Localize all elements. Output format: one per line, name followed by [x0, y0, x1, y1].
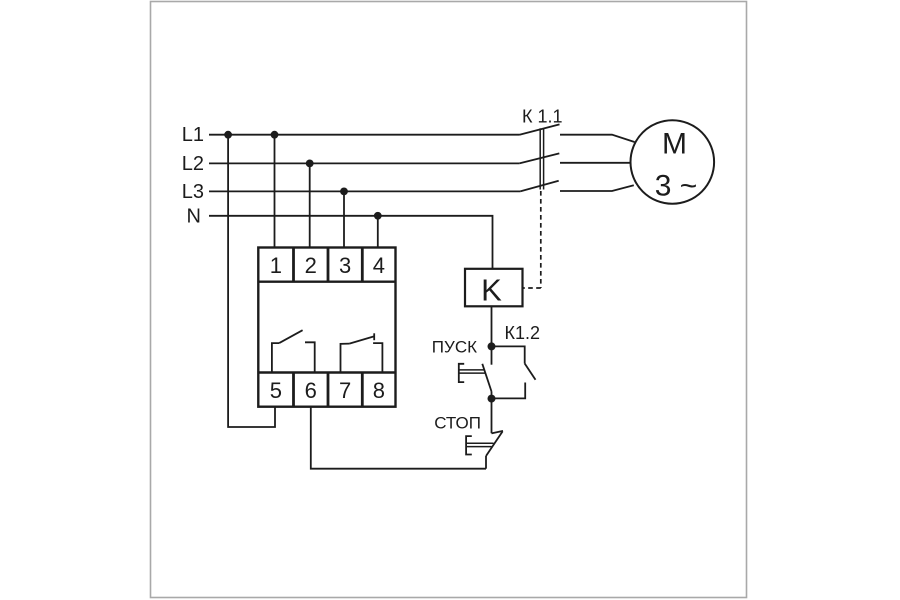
svg-text:K: K: [481, 272, 502, 307]
stop button blade: [486, 432, 503, 457]
relay contact B post 8: [373, 343, 382, 372]
terminal divider 7|8: [361, 373, 364, 407]
wire N to terminal 4: [377, 216, 379, 248]
wire L1 down left side to terminal 5: [228, 135, 275, 427]
svg-text:3: 3: [339, 253, 351, 278]
wire terminal 6 to stop button: [311, 407, 486, 469]
relay contact B blade tick: [373, 333, 375, 340]
wire L3 to terminal 3: [343, 191, 345, 247]
contactor K1.1 pole 2 blade: [519, 153, 559, 163]
contact K1.2 blade: [525, 364, 536, 380]
start button actuator rod lower: [459, 372, 486, 374]
coil K box: [465, 269, 523, 307]
wire L3: [209, 190, 520, 192]
contact K1.2 bottom branch wire: [492, 383, 526, 399]
terminal divider 3|4: [361, 248, 364, 282]
svg-text:5: 5: [270, 378, 282, 403]
contactor K1.1 pole 3 blade: [520, 181, 559, 192]
relay contact A blade: [279, 330, 302, 343]
stop button actuator bracket: [466, 436, 472, 454]
junction dot L1-a: [224, 131, 232, 139]
svg-text:8: 8: [373, 378, 385, 403]
svg-text:N: N: [187, 205, 201, 227]
start button bottom lead: [491, 392, 493, 399]
start button actuator bracket: [459, 364, 464, 382]
svg-text:3 ~: 3 ~: [655, 170, 698, 203]
svg-text:СТОП: СТОП: [434, 414, 481, 433]
wire L2 to terminal 2: [309, 163, 311, 247]
wire K coil to start node: [491, 306, 493, 346]
svg-text:L1: L1: [182, 124, 204, 146]
svg-text:К1.2: К1.2: [505, 323, 541, 343]
svg-text:7: 7: [339, 378, 351, 403]
stop button top lead: [491, 399, 493, 434]
wire N to K coil: [209, 216, 493, 269]
wire L1 to terminal 1: [274, 135, 276, 248]
contact K1.2 top branch wire: [492, 346, 525, 363]
relay contact A post 5: [272, 343, 279, 372]
relay bottom terminal row line: [258, 371, 395, 373]
stop button actuator rod upper: [466, 442, 493, 444]
junction dot start top: [488, 342, 496, 350]
mechanical link dashed horizontal: [523, 287, 541, 289]
stop button bottom lead: [485, 456, 487, 469]
terminal divider 5|6: [292, 373, 295, 407]
start button actuator rod upper: [459, 369, 485, 371]
junction dot L3: [340, 188, 348, 196]
svg-text:4: 4: [373, 253, 385, 278]
svg-text:1: 1: [270, 253, 282, 278]
junction dot L2: [306, 160, 314, 168]
border frame: [151, 2, 747, 598]
svg-text:L2: L2: [182, 153, 204, 175]
wire L2: [209, 162, 519, 164]
junction dot start bottom: [488, 395, 496, 403]
mechanical link dashed vertical: [540, 191, 542, 288]
relay top terminal row line: [258, 281, 395, 283]
wire pole 1 to motor: [560, 135, 635, 142]
wire L1: [209, 134, 520, 136]
terminal divider 2|3: [327, 248, 330, 282]
wire pole 2 to motor: [560, 162, 631, 164]
svg-text:ПУСК: ПУСК: [432, 338, 477, 357]
svg-text:К 1.1: К 1.1: [522, 106, 563, 126]
junction dot L1-b: [271, 131, 279, 139]
svg-text:2: 2: [305, 253, 317, 278]
relay contact B blade: [349, 336, 374, 343]
svg-text:L3: L3: [182, 181, 204, 203]
relay contact A post 6: [305, 342, 315, 372]
contactor K1.1 pole 1 blade: [520, 124, 560, 134]
start button blade: [482, 364, 491, 392]
stop button fixed contact tick: [492, 431, 504, 434]
stop button actuator rod lower: [466, 446, 491, 448]
contactor K1.1 linkage bar left: [539, 128, 541, 189]
relay module body: [258, 248, 395, 407]
svg-text:M: M: [662, 127, 687, 160]
junction dot N: [374, 212, 382, 220]
relay contact B post 7: [341, 344, 350, 373]
svg-text:6: 6: [305, 378, 317, 403]
terminal divider 6|7: [327, 373, 330, 407]
terminal divider 1|2: [292, 248, 295, 282]
motor M1 circle: [631, 120, 715, 204]
start button top lead: [491, 346, 493, 364]
wire pole 3 to motor: [560, 185, 634, 191]
contactor K1.1 linkage bar right: [543, 128, 545, 189]
